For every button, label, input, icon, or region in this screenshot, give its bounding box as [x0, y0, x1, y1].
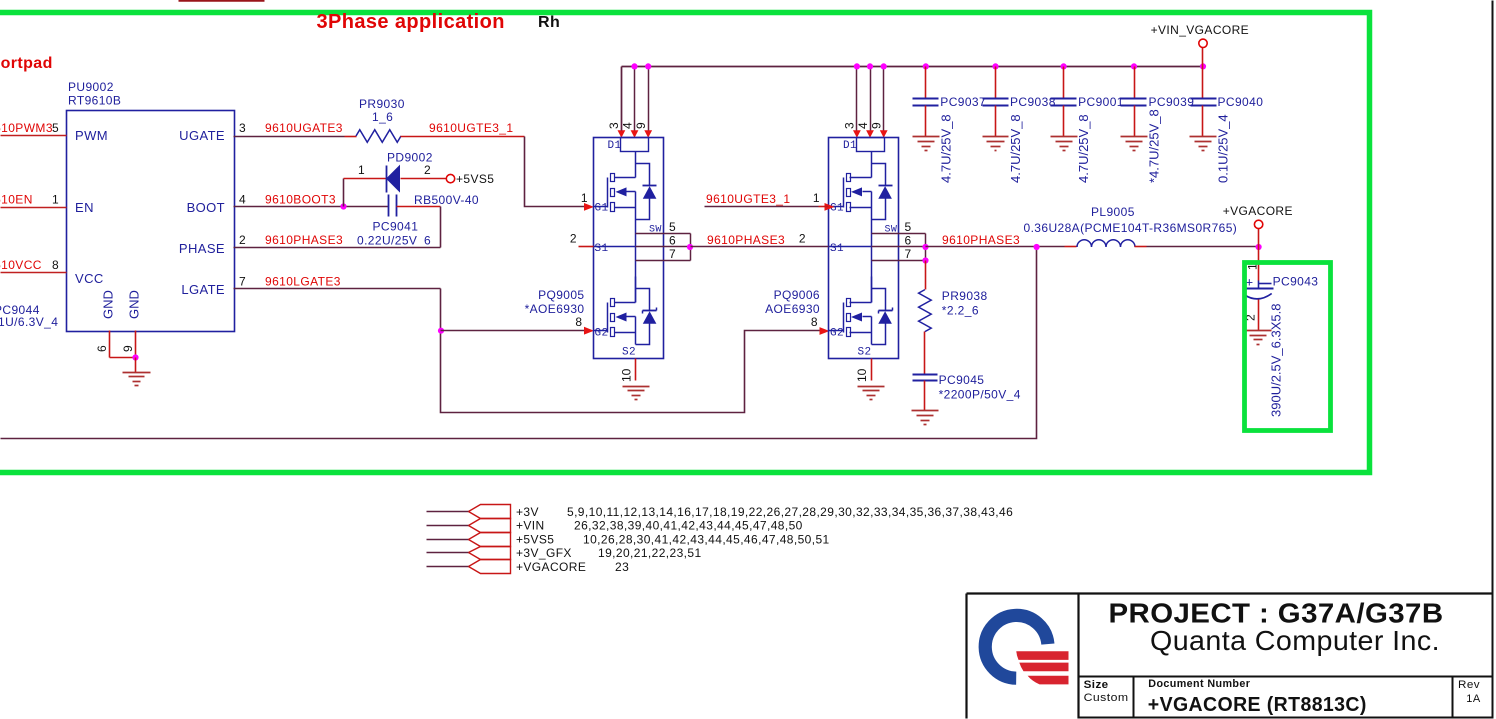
svg-text:4: 4 [239, 193, 246, 207]
svg-text:GND: GND [127, 290, 142, 319]
svg-text:9610PHASE3: 9610PHASE3 [265, 233, 343, 247]
svg-text:PQ9006: PQ9006 [774, 288, 820, 302]
svg-text:+VGACORE: +VGACORE [516, 560, 586, 574]
svg-text:PC9041: PC9041 [373, 220, 419, 234]
svg-text:8: 8 [52, 258, 59, 272]
svg-text:0.22U/25V: 0.22U/25V [357, 234, 417, 248]
svg-text:PC9039: PC9039 [1149, 95, 1195, 109]
svg-text:1: 1 [358, 163, 365, 177]
svg-text:Custom: Custom [1084, 692, 1129, 704]
svg-text:PL9005: PL9005 [1091, 205, 1135, 219]
svg-text:9610UGTE3_1: 9610UGTE3_1 [706, 192, 790, 206]
svg-text:1A: 1A [1466, 693, 1481, 705]
svg-text:6: 6 [669, 234, 676, 248]
svg-text:RT9610B: RT9610B [68, 94, 121, 108]
svg-text:1_6: 1_6 [372, 110, 393, 124]
svg-text:5: 5 [669, 220, 676, 234]
svg-text:1: 1 [52, 193, 59, 207]
svg-text:Rh: Rh [538, 14, 560, 31]
svg-text:Rev: Rev [1458, 679, 1480, 691]
svg-text:D1: D1 [843, 140, 857, 152]
svg-text:PC9043: PC9043 [1273, 275, 1319, 289]
svg-text:4: 4 [856, 122, 870, 129]
svg-text:4.7U/25V_8: 4.7U/25V_8 [938, 114, 953, 183]
svg-text:PQ9005: PQ9005 [538, 288, 584, 302]
svg-text:9610PHASE3: 9610PHASE3 [707, 233, 785, 247]
svg-text:S1: S1 [595, 243, 609, 255]
svg-text:*2.2_6: *2.2_6 [942, 304, 979, 318]
svg-text:S1: S1 [830, 243, 844, 255]
svg-text:+VGACORE: +VGACORE [1223, 204, 1293, 218]
svg-text:PC9038: PC9038 [1010, 95, 1056, 109]
svg-text:PC9040: PC9040 [1218, 95, 1264, 109]
svg-text:Size: Size [1084, 679, 1109, 691]
svg-text:Portpad: Portpad [0, 55, 53, 72]
svg-text:6: 6 [95, 345, 109, 352]
svg-text:1: 1 [813, 191, 820, 205]
svg-text:Document Number: Document Number [1148, 678, 1250, 690]
svg-text:6: 6 [905, 234, 912, 248]
svg-text:9610UGATE3: 9610UGATE3 [265, 121, 343, 135]
svg-text:3: 3 [239, 121, 246, 135]
svg-text:PC9001: PC9001 [1078, 95, 1124, 109]
svg-text:GND: GND [101, 290, 116, 319]
svg-text:PC9037: PC9037 [940, 95, 986, 109]
svg-text:9610PHASE3: 9610PHASE3 [942, 233, 1020, 247]
svg-text:10: 10 [619, 368, 633, 382]
svg-text:S2: S2 [858, 347, 872, 359]
svg-text:UGATE: UGATE [179, 128, 225, 143]
svg-text:2: 2 [799, 232, 806, 246]
svg-text:4: 4 [620, 122, 634, 129]
svg-text:PC9045: PC9045 [939, 373, 985, 387]
svg-text:PWM: PWM [75, 128, 108, 143]
svg-text:PD9002: PD9002 [387, 151, 433, 165]
svg-text:G2: G2 [595, 328, 609, 340]
svg-text:G1: G1 [595, 203, 609, 215]
svg-text:PR9038: PR9038 [942, 289, 988, 303]
svg-text:2: 2 [570, 232, 577, 246]
svg-text:9610BOOT3: 9610BOOT3 [265, 193, 336, 207]
svg-text:2: 2 [424, 163, 431, 177]
svg-text:390U/2.5V_6.3X5.8: 390U/2.5V_6.3X5.8 [1269, 304, 1284, 417]
svg-text:+5VS5: +5VS5 [516, 532, 554, 546]
svg-text:RB500V-40: RB500V-40 [414, 193, 479, 207]
svg-text:1: 1 [581, 191, 588, 205]
svg-text:1U/6.3V_4: 1U/6.3V_4 [0, 315, 58, 329]
svg-text:S2: S2 [622, 347, 636, 359]
svg-text:PU9002: PU9002 [68, 80, 114, 94]
svg-text:26,32,38,39,40,41,42,43,44,45,: 26,32,38,39,40,41,42,43,44,45,47,48,50 [574, 519, 803, 533]
svg-text:+5VS5: +5VS5 [456, 172, 494, 186]
svg-text:9610UGTE3_1: 9610UGTE3_1 [429, 121, 513, 135]
svg-text:4.7U/25V_8: 4.7U/25V_8 [1076, 114, 1091, 183]
svg-text:+3V: +3V [516, 505, 539, 519]
svg-text:EN: EN [75, 200, 94, 215]
svg-text:+VGACORE (RT8813C): +VGACORE (RT8813C) [1148, 694, 1367, 716]
svg-text:3Phase application: 3Phase application [317, 11, 505, 33]
svg-text:3: 3 [607, 122, 621, 129]
svg-text:10: 10 [855, 368, 869, 382]
svg-text:9610VCC: 9610VCC [0, 258, 42, 272]
svg-text:0.1U/25V_4: 0.1U/25V_4 [1216, 114, 1231, 183]
svg-text:D1: D1 [608, 140, 622, 152]
svg-text:5,9,10,11,12,13,14,16,17,18,19: 5,9,10,11,12,13,14,16,17,18,19,22,26,27,… [567, 505, 1013, 519]
svg-text:9: 9 [870, 122, 884, 129]
svg-text:7: 7 [239, 275, 246, 289]
svg-text:9: 9 [634, 122, 648, 129]
svg-text:VCC: VCC [75, 271, 104, 286]
svg-text:BOOT: BOOT [187, 200, 225, 215]
svg-text:*4.7U/25V_8: *4.7U/25V_8 [1147, 109, 1162, 183]
svg-text:0.36U28A(PCME104T-R36MS0R765): 0.36U28A(PCME104T-R36MS0R765) [1024, 221, 1238, 235]
svg-text:7: 7 [905, 247, 912, 261]
svg-text:*AOE6930: *AOE6930 [525, 302, 585, 316]
svg-text:PHASE: PHASE [179, 241, 225, 256]
svg-text:PR9030: PR9030 [359, 97, 405, 111]
svg-text:5: 5 [905, 220, 912, 234]
svg-text:8: 8 [811, 315, 818, 329]
svg-text:*2200P/50V_4: *2200P/50V_4 [939, 388, 1021, 402]
svg-text:23: 23 [615, 560, 629, 574]
svg-text:+3V_GFX: +3V_GFX [516, 546, 572, 560]
svg-text:3: 3 [843, 122, 857, 129]
svg-text:6: 6 [424, 234, 431, 248]
svg-text:+VIN_VGACORE: +VIN_VGACORE [1151, 23, 1250, 37]
svg-text:8: 8 [575, 315, 582, 329]
svg-text:19,20,21,22,23,51: 19,20,21,22,23,51 [598, 546, 702, 560]
svg-text:G2: G2 [830, 328, 844, 340]
svg-text:9610LGATE3: 9610LGATE3 [265, 275, 341, 289]
svg-text:9610EN: 9610EN [0, 193, 33, 207]
svg-text:PROJECT : G37A/G37B: PROJECT : G37A/G37B [1109, 598, 1444, 629]
svg-text:10,26,28,30,41,42,43,44,45,46,: 10,26,28,30,41,42,43,44,45,46,47,48,50,5… [583, 532, 830, 546]
svg-text:Quanta Computer Inc.: Quanta Computer Inc. [1150, 625, 1440, 656]
svg-text:+VIN: +VIN [516, 519, 545, 533]
svg-text:4.7U/25V_8: 4.7U/25V_8 [1008, 114, 1023, 183]
svg-text:LGATE: LGATE [181, 282, 225, 297]
svg-text:9610PWM3: 9610PWM3 [0, 121, 53, 135]
svg-text:7: 7 [669, 247, 676, 261]
svg-text:AOE6930: AOE6930 [765, 302, 820, 316]
svg-text:G1: G1 [830, 203, 844, 215]
svg-text:2: 2 [239, 233, 246, 247]
svg-text:9: 9 [121, 345, 135, 352]
svg-text:5: 5 [52, 121, 59, 135]
